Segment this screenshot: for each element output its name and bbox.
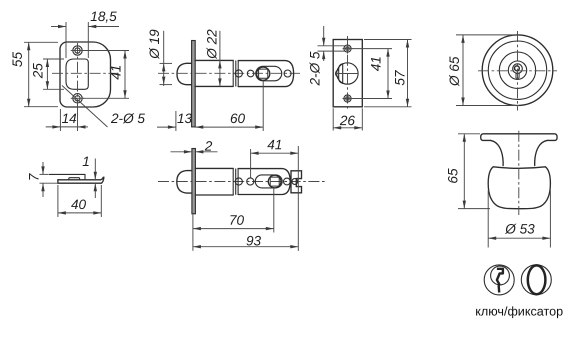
latch body bottom view bbox=[195, 167, 233, 169]
strike screw hole top bbox=[343, 44, 353, 54]
svg-text:41: 41 bbox=[267, 137, 282, 152]
dim 65 bbox=[446, 134, 490, 209]
dim 2-O5 strike bbox=[307, 26, 344, 87]
faceplate inner cutout bbox=[66, 59, 88, 89]
plate dimple side view bbox=[69, 178, 80, 180]
leader 2-O5 view1 bbox=[62, 86, 145, 128]
case hole B bottom bbox=[247, 178, 254, 185]
case hole C top bbox=[284, 70, 291, 77]
knob neck curves bbox=[491, 140, 504, 165]
latch case top view bbox=[238, 61, 293, 87]
svg-text:60: 60 bbox=[230, 111, 246, 126]
svg-text:Ø 22: Ø 22 bbox=[205, 29, 220, 60]
dim 25 bbox=[30, 59, 64, 89]
latch case bottom view bbox=[238, 169, 290, 195]
dim 70 bbox=[193, 188, 274, 251]
case obround slot bottom bbox=[255, 175, 282, 188]
knob front centerlines bbox=[478, 70, 557, 72]
screw hole bottom bbox=[71, 94, 84, 103]
dim 57 bbox=[364, 40, 412, 107]
strike screw hole bottom bbox=[343, 94, 353, 104]
case hole A bottom bbox=[235, 178, 242, 185]
dim O53 bbox=[488, 190, 550, 248]
svg-text:Ø 53: Ø 53 bbox=[504, 221, 535, 236]
knob rose flange side view bbox=[481, 134, 557, 141]
svg-text:93: 93 bbox=[246, 233, 262, 248]
centerline latch top view bbox=[158, 72, 300, 74]
svg-text:55: 55 bbox=[10, 52, 25, 68]
case hole B top bbox=[247, 70, 254, 77]
latch faceplate bar bottom view bbox=[192, 149, 196, 214]
dim 41 strike bbox=[352, 49, 392, 99]
key icon circle bbox=[484, 265, 514, 295]
case hole C bottom bbox=[284, 178, 291, 185]
knob rose circle bbox=[488, 41, 546, 99]
svg-text:Ø 19: Ø 19 bbox=[147, 29, 162, 60]
case hole A top bbox=[235, 70, 242, 77]
screw hole top bbox=[71, 46, 84, 55]
strike vertical centerline bbox=[347, 36, 349, 111]
svg-text:2: 2 bbox=[204, 139, 213, 154]
fixator icon circle bbox=[521, 265, 551, 295]
knob ball side view bbox=[488, 167, 550, 209]
svg-text:18,5: 18,5 bbox=[90, 9, 117, 24]
svg-text:26: 26 bbox=[339, 113, 356, 128]
svg-text:25: 25 bbox=[30, 63, 45, 80]
retainer clip piece bbox=[291, 171, 302, 193]
svg-text:13: 13 bbox=[177, 111, 193, 126]
faceplate front view outline bbox=[60, 42, 111, 107]
spindle circle bottom bbox=[268, 175, 281, 188]
svg-text:40: 40 bbox=[71, 197, 87, 212]
knob middle circle bbox=[499, 52, 535, 88]
dim 26 bbox=[333, 108, 362, 130]
dim 41 view1 bbox=[83, 51, 129, 99]
svg-text:2-Ø 5: 2-Ø 5 bbox=[307, 51, 322, 86]
dim O65 bbox=[447, 35, 519, 106]
latch collar bottom view bbox=[232, 168, 234, 195]
dim 55 bbox=[10, 42, 58, 106]
dim O22 bbox=[205, 29, 222, 87]
svg-text:1: 1 bbox=[82, 154, 90, 169]
svg-text:14: 14 bbox=[62, 111, 78, 126]
svg-text:70: 70 bbox=[229, 213, 245, 228]
centerline latch bottom view bbox=[158, 181, 326, 183]
svg-text:41: 41 bbox=[109, 65, 124, 80]
spindle square hole bottom bbox=[270, 177, 279, 186]
faceplate side profile bbox=[58, 177, 104, 183]
spindle circle top bbox=[257, 67, 270, 80]
svg-text:2-Ø 5: 2-Ø 5 bbox=[110, 111, 145, 126]
svg-text:Ø 65: Ø 65 bbox=[447, 56, 462, 87]
dim 40 bbox=[58, 185, 101, 217]
dim 41 bottom bbox=[251, 137, 299, 251]
centerline vertical through holes view1 bbox=[77, 43, 79, 106]
latch collar top view bbox=[232, 60, 234, 86]
knob side centerline bbox=[518, 131, 520, 215]
dim 18,5 bbox=[51, 9, 119, 58]
fixator icon thumbturn oval bbox=[528, 265, 546, 294]
latch bolt seen in strike hole bbox=[336, 63, 358, 84]
svg-text:65: 65 bbox=[446, 168, 461, 184]
latch body top view bbox=[195, 59, 233, 61]
dim 93 bbox=[193, 233, 298, 248]
latch bolt dome bottom view bbox=[177, 171, 192, 194]
svg-text:41: 41 bbox=[369, 56, 384, 71]
spindle square hole top bbox=[259, 69, 268, 78]
dim O19 bbox=[147, 29, 172, 86]
cylinder face circle bbox=[508, 61, 526, 79]
key icon key shape bbox=[497, 269, 503, 293]
dim 1 bbox=[82, 154, 97, 198]
dim 7 bbox=[27, 162, 57, 197]
svg-text:7: 7 bbox=[27, 173, 42, 181]
strike plate outline bbox=[333, 40, 362, 107]
latch faceplate bar top view bbox=[192, 41, 196, 127]
latch bolt dome top view bbox=[177, 63, 192, 84]
dim 60 bbox=[195, 81, 263, 131]
case obround slot top bbox=[256, 66, 282, 81]
strike latch hole bbox=[337, 63, 358, 84]
dim 2 bbox=[171, 139, 218, 154]
dim 14 bbox=[46, 105, 88, 131]
svg-text:57: 57 bbox=[392, 70, 407, 86]
housing behind plate side view bbox=[49, 174, 86, 179]
key icon head circle bbox=[491, 266, 510, 285]
centerline horizontal view1 bbox=[52, 72, 118, 74]
svg-text:ключ/фиксатор: ключ/фиксатор bbox=[475, 304, 563, 318]
keyhole bbox=[513, 64, 523, 78]
knob front outer circle bbox=[482, 35, 553, 106]
dim 13 bbox=[157, 111, 193, 131]
